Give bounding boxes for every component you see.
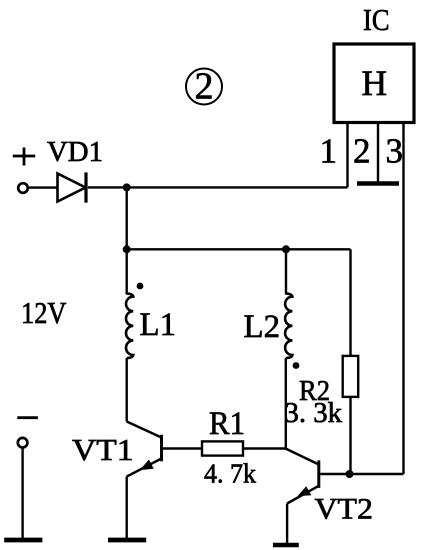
wire: IC pin 2: [377, 124, 379, 182]
transistor VT1: [127, 422, 162, 477]
ground bar (VT2 emitter): [273, 543, 299, 547]
svg-text:L1: L1: [140, 307, 177, 343]
wire: VT1 emitter to ground: [125, 477, 127, 539]
transistor VT2: [286, 449, 319, 504]
wire: plus terminal to diode anode: [29, 186, 57, 188]
wire: VT2 emitter to ground: [286, 504, 288, 544]
wire: IC pin 3: [402, 124, 404, 474]
wire: L2 top lead: [285, 249, 287, 294]
svg-text:3: 3: [385, 131, 403, 170]
resistor R1: [202, 441, 243, 455]
wire: minus terminal to ground: [21, 448, 23, 538]
junction node: top rail / left rail: [123, 183, 131, 191]
polarity dot L2: [293, 362, 300, 369]
wire: VT2 base rail to pin3: [320, 473, 403, 475]
wire: L1 bottom to VT1 collector: [125, 358, 127, 422]
svg-text:3. 3k: 3. 3k: [285, 398, 343, 429]
svg-text:2: 2: [195, 66, 214, 108]
svg-text:VT1: VT1: [72, 432, 134, 467]
svg-text:1: 1: [319, 131, 337, 170]
polarity dot L1: [137, 283, 144, 290]
wire: R2 top lead: [349, 249, 351, 356]
svg-text:R1: R1: [209, 406, 245, 442]
svg-text:VD1: VD1: [47, 137, 103, 168]
wire: R1 to VT2 collector node: [243, 447, 286, 449]
wire: second horizontal rail: [127, 248, 351, 250]
wire: diode cathode to IC pin1 (top rail): [88, 186, 348, 188]
resistor R2: [343, 356, 359, 397]
wire: VT1 base to R1: [162, 447, 202, 449]
IC block: [334, 44, 414, 123]
junction node: R2 / VT2 base rail: [346, 470, 354, 478]
battery minus terminal: [17, 418, 38, 448]
wire: L2 bottom lead to VT2 collector node: [285, 358, 287, 449]
svg-text:2: 2: [353, 131, 371, 170]
inductor L1: [126, 294, 133, 359]
wire: R2 bottom lead: [349, 397, 351, 474]
diode VD1: [58, 172, 87, 202]
ground bar (battery minus): [4, 538, 42, 543]
wire: IC pin 1: [346, 124, 348, 187]
junction node: second rail / L1: [123, 245, 131, 253]
ground bar (VT1 emitter): [108, 538, 146, 543]
figure number 2 (circled): [186, 66, 222, 108]
svg-text:VT2: VT2: [315, 493, 374, 526]
wire: left vertical rail (top rail to second rail): [125, 187, 127, 249]
wire: L1 top lead: [125, 249, 127, 294]
ground bar (IC pin 2): [357, 181, 399, 185]
svg-text:4. 7k: 4. 7k: [204, 459, 256, 489]
battery plus terminal: [13, 148, 35, 193]
svg-text:12V: 12V: [21, 295, 67, 330]
svg-text:H: H: [362, 63, 388, 103]
svg-text:IC: IC: [363, 2, 390, 37]
inductor L2: [285, 294, 292, 359]
svg-text:L2: L2: [244, 309, 281, 345]
junction node: second rail / L2: [282, 245, 290, 253]
